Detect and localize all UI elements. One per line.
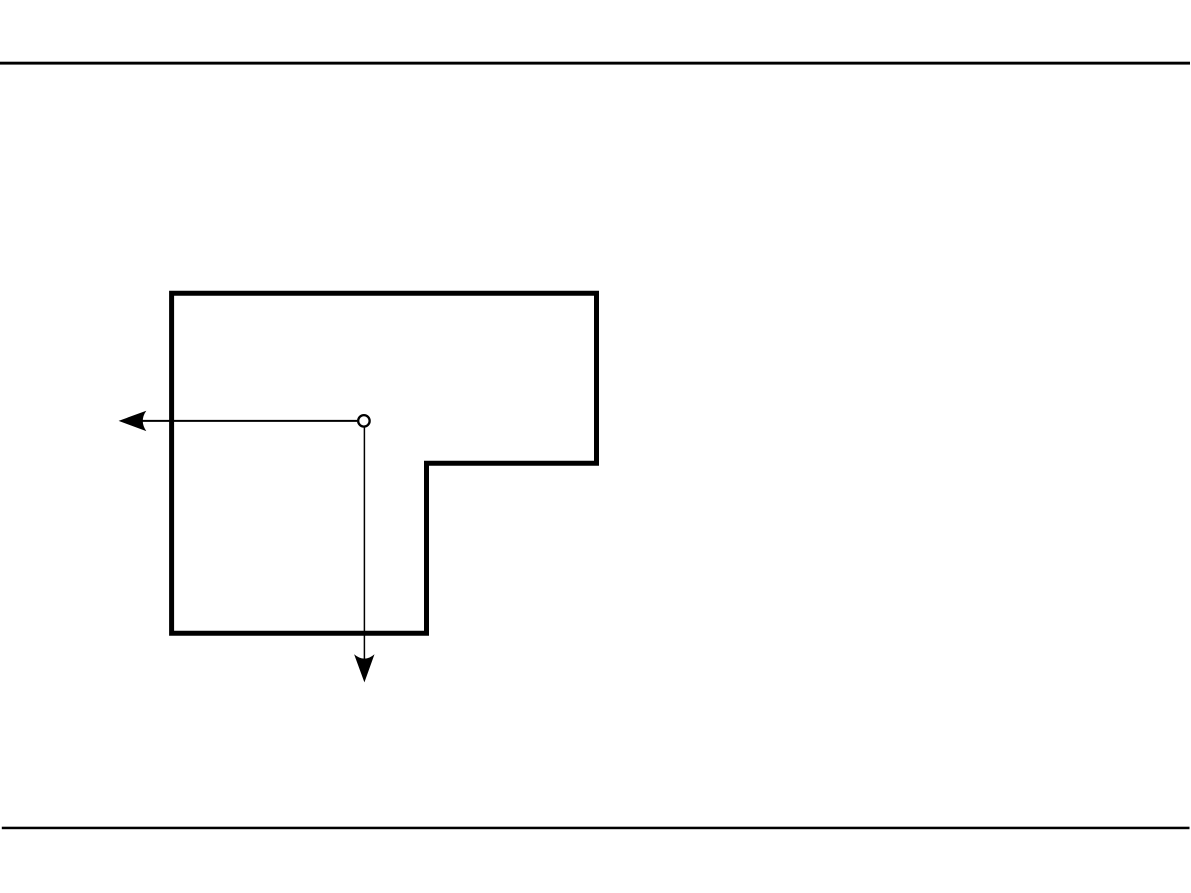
L-shaped plate outline <box>172 293 597 633</box>
bottom horizontal rule <box>2 827 1190 830</box>
left arrow shaft <box>141 420 357 422</box>
left arrowhead <box>119 411 147 431</box>
top horizontal rule <box>0 62 1190 65</box>
pivot circle marker <box>358 415 370 427</box>
down arrowhead <box>354 654 374 682</box>
down arrow shaft <box>363 428 365 660</box>
